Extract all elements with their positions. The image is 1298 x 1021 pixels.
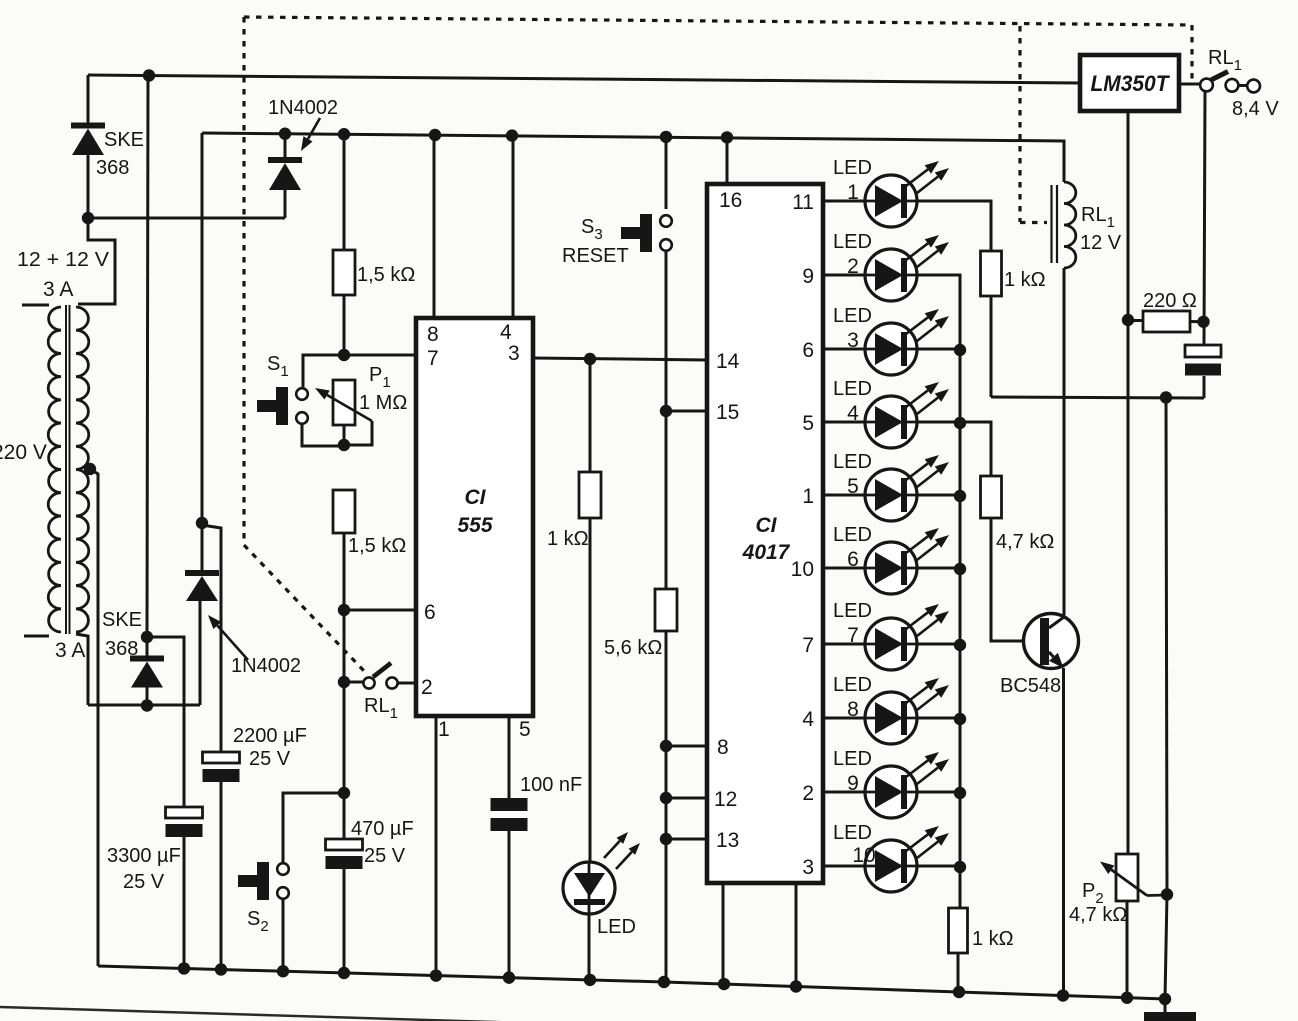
svg-text:14: 14 [716, 350, 740, 373]
svg-text:CI: CI [756, 514, 778, 537]
svg-text:220 V: 220 V [0, 441, 47, 464]
svg-text:2: 2 [421, 676, 433, 699]
svg-text:LED: LED [833, 231, 872, 253]
svg-text:25 V: 25 V [364, 845, 406, 867]
svg-text:470 µF: 470 µF [351, 818, 414, 840]
svg-text:RESET: RESET [562, 245, 629, 267]
svg-text:1: 1 [438, 718, 450, 741]
svg-text:LED: LED [833, 674, 872, 696]
svg-text:SKE: SKE [104, 129, 144, 151]
svg-text:6: 6 [802, 339, 814, 362]
svg-text:1,5 kΩ: 1,5 kΩ [357, 264, 415, 286]
svg-text:12 + 12 V: 12 + 12 V [17, 249, 110, 271]
svg-text:1 kΩ: 1 kΩ [1004, 269, 1046, 291]
svg-text:1: 1 [802, 485, 814, 508]
svg-text:3 A: 3 A [43, 278, 73, 301]
svg-text:368: 368 [105, 638, 138, 660]
svg-text:1 kΩ: 1 kΩ [547, 528, 589, 550]
svg-text:3: 3 [802, 856, 814, 879]
svg-text:LED: LED [833, 378, 872, 400]
svg-text:13: 13 [716, 829, 739, 852]
svg-text:LED: LED [833, 748, 872, 770]
svg-text:1N4002: 1N4002 [231, 655, 301, 677]
svg-text:LED: LED [833, 600, 872, 622]
svg-text:3: 3 [508, 342, 520, 365]
svg-text:SKE: SKE [102, 609, 142, 631]
svg-text:7: 7 [802, 634, 814, 657]
svg-text:4: 4 [500, 321, 512, 344]
svg-text:6: 6 [847, 548, 859, 571]
svg-text:3: 3 [847, 329, 859, 352]
svg-text:4017: 4017 [742, 541, 791, 564]
svg-text:11: 11 [792, 191, 814, 214]
svg-text:8: 8 [847, 698, 859, 721]
svg-text:LED: LED [833, 524, 872, 546]
svg-text:7: 7 [427, 347, 439, 370]
svg-text:5,6 kΩ: 5,6 kΩ [604, 637, 662, 659]
svg-text:220 Ω: 220 Ω [1143, 290, 1197, 312]
svg-text:5: 5 [802, 412, 814, 435]
svg-text:2: 2 [802, 782, 814, 805]
svg-text:25 V: 25 V [123, 871, 165, 893]
svg-text:100 nF: 100 nF [520, 774, 582, 796]
svg-text:9: 9 [847, 772, 859, 795]
svg-text:10: 10 [791, 558, 814, 581]
svg-text:2: 2 [847, 255, 859, 278]
svg-text:15: 15 [716, 401, 739, 424]
svg-text:LED: LED [833, 305, 872, 327]
svg-text:LED: LED [833, 157, 872, 179]
svg-text:1 kΩ: 1 kΩ [972, 928, 1014, 950]
svg-text:1,5 kΩ: 1,5 kΩ [348, 535, 406, 557]
svg-text:5: 5 [847, 475, 859, 498]
svg-text:4: 4 [802, 708, 814, 731]
svg-text:4: 4 [847, 402, 859, 425]
svg-text:7: 7 [847, 624, 859, 647]
svg-text:3 A: 3 A [55, 639, 85, 662]
svg-text:8,4 V: 8,4 V [1232, 98, 1279, 120]
svg-text:8: 8 [427, 323, 439, 346]
svg-text:LED: LED [597, 916, 636, 938]
svg-text:CI: CI [465, 486, 487, 509]
svg-text:1N4002: 1N4002 [268, 97, 338, 119]
svg-text:555: 555 [457, 514, 492, 537]
svg-text:LM350T: LM350T [1091, 71, 1170, 96]
svg-text:LED: LED [833, 822, 872, 844]
svg-text:10: 10 [852, 844, 875, 867]
svg-text:LED: LED [833, 451, 872, 473]
svg-text:BC548: BC548 [1000, 675, 1061, 697]
svg-text:5: 5 [519, 718, 531, 741]
svg-text:12 V: 12 V [1080, 232, 1122, 254]
svg-text:6: 6 [424, 601, 436, 624]
svg-text:25 V: 25 V [249, 748, 291, 770]
svg-text:4,7 kΩ: 4,7 kΩ [1069, 904, 1127, 926]
svg-text:368: 368 [96, 157, 129, 179]
svg-text:1: 1 [847, 181, 859, 204]
svg-text:1 MΩ: 1 MΩ [359, 392, 407, 414]
svg-text:2200 µF: 2200 µF [233, 725, 307, 747]
svg-text:3300 µF: 3300 µF [107, 845, 181, 867]
svg-text:9: 9 [802, 265, 814, 288]
svg-text:8: 8 [717, 736, 729, 759]
svg-text:12: 12 [714, 788, 737, 811]
svg-text:4,7 kΩ: 4,7 kΩ [996, 531, 1054, 553]
svg-text:16: 16 [719, 189, 742, 212]
